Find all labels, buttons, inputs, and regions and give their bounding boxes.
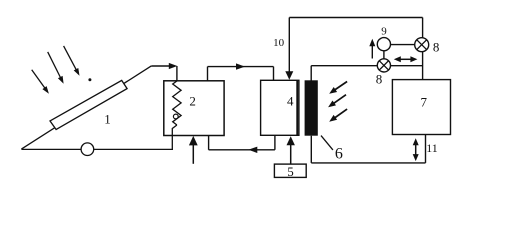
absorber strip 6 — [305, 80, 318, 135]
support hypotenuse wire — [21, 66, 151, 149]
radiation arrow — [335, 82, 348, 91]
svg-text:8: 8 — [376, 71, 383, 86]
mains water inlet arrow — [192, 144, 194, 163]
radiation arrow — [333, 95, 346, 104]
membrane line — [296, 80, 298, 135]
svg-text:6: 6 — [335, 146, 343, 163]
sun ray arrow — [32, 70, 45, 89]
right vertical wire to box 7 — [422, 18, 424, 80]
wire into coil — [176, 66, 178, 85]
crossover pipe — [311, 65, 422, 67]
double vertical arrow 11 — [415, 144, 417, 157]
collector outlet arrow — [151, 65, 170, 67]
double horizontal arrow — [399, 58, 413, 60]
tank box 2 — [164, 81, 224, 136]
valve 8 lower — [377, 59, 390, 72]
heat exchanger coil — [173, 81, 181, 125]
svg-text:4: 4 — [287, 93, 294, 108]
top wire — [289, 17, 422, 19]
riser to absorber — [310, 66, 312, 81]
bottom right wire — [310, 136, 312, 163]
box 4 reactor — [261, 80, 299, 135]
svg-text:7: 7 — [421, 95, 428, 110]
pointer line 6 — [321, 136, 333, 150]
circle 9 — [377, 38, 390, 51]
dot — [88, 78, 91, 81]
arrow box5 to box4 — [290, 144, 292, 164]
sun ray arrow — [64, 46, 77, 70]
svg-text:1: 1 — [104, 111, 111, 126]
svg-text:5: 5 — [287, 164, 294, 179]
flow up arrow — [371, 45, 373, 58]
svg-text:8: 8 — [433, 40, 440, 55]
pipe 10 vertical — [288, 18, 290, 73]
svg-text:2: 2 — [189, 94, 196, 109]
svg-text:11: 11 — [426, 141, 438, 155]
sun ray arrow — [48, 52, 61, 78]
svg-text:10: 10 — [273, 37, 285, 49]
bottom return wire — [21, 148, 173, 150]
link to valve 8 — [391, 44, 415, 46]
svg-text:9: 9 — [381, 25, 387, 37]
link to lower valve — [383, 51, 385, 59]
box 5 — [274, 164, 306, 177]
return wire box4 to tank2 — [274, 135, 276, 150]
box 7 — [392, 80, 450, 135]
valve 8 top — [415, 38, 429, 52]
radiation arrow — [335, 109, 348, 118]
wire tank2 to box4 with arrow — [207, 67, 209, 81]
solar collector 1 — [50, 80, 127, 129]
pump circle — [81, 143, 94, 156]
